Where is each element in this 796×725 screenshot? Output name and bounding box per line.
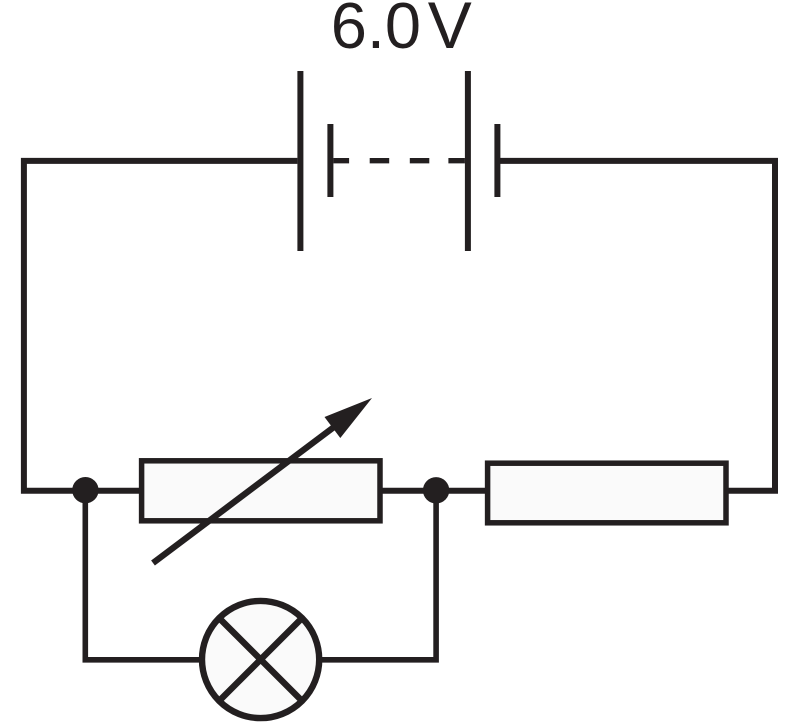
svg-text:6.0: 6.0 bbox=[331, 0, 421, 62]
variable resistor R1 body bbox=[142, 461, 380, 521]
lamp L1 cross stroke 2 bbox=[219, 618, 302, 701]
junction dot left bbox=[72, 477, 98, 503]
svg-text:V: V bbox=[428, 0, 472, 62]
battery cell 2 short plate bbox=[494, 124, 500, 197]
lamp L1 cross stroke 1 bbox=[219, 618, 302, 701]
resistor R2 body bbox=[488, 463, 726, 523]
junction dot right bbox=[423, 477, 449, 503]
wire right loop: from battery right plate to top-right corner, down right side, left to resistor bbox=[497, 161, 775, 491]
wire lamp branch: down from left junction, along bottom, up to right junction bbox=[85, 490, 436, 660]
battery dashed link bbox=[333, 158, 465, 163]
label battery voltage 6.0 V bbox=[331, 0, 472, 62]
battery cell 1 short plate bbox=[327, 124, 333, 197]
variable resistor R1 arrow head bbox=[325, 398, 373, 438]
lamp L1 bulb circle bbox=[202, 601, 319, 718]
battery cell 2 long plate bbox=[465, 71, 471, 251]
wire left loop: from battery plate to top-left corner, down left side, right to rheostat bbox=[24, 161, 298, 491]
wire between rheostat and resistor bbox=[382, 488, 486, 494]
variable resistor R1 arrow shaft bbox=[153, 424, 338, 563]
battery cell 1 long plate bbox=[297, 71, 303, 251]
